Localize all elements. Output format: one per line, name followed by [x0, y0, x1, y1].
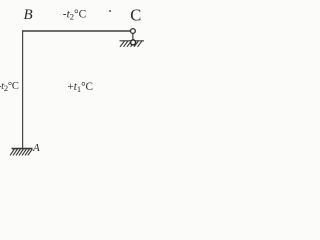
svg-text:A: A — [32, 142, 40, 154]
svg-text:-t2°C: -t2°C — [0, 81, 19, 93]
svg-text:+t1°C: +t1°C — [67, 81, 93, 94]
fixed support ground line at A — [12, 148, 33, 150]
svg-text:B: B — [24, 7, 33, 23]
member BC (horizontal beam) — [22, 30, 130, 32]
hinge circle at C (top) — [131, 29, 136, 34]
ground hatching at C — [120, 41, 145, 47]
member AB (vertical column) — [22, 30, 24, 148]
roller hinge circle at C (bottom) — [131, 40, 136, 45]
link bar of support at C — [132, 32, 134, 41]
ground hatching at A — [10, 149, 32, 155]
stray speck — [109, 10, 111, 12]
svg-text:C: C — [130, 5, 141, 24]
svg-text:-t2°C: -t2°C — [63, 8, 86, 21]
